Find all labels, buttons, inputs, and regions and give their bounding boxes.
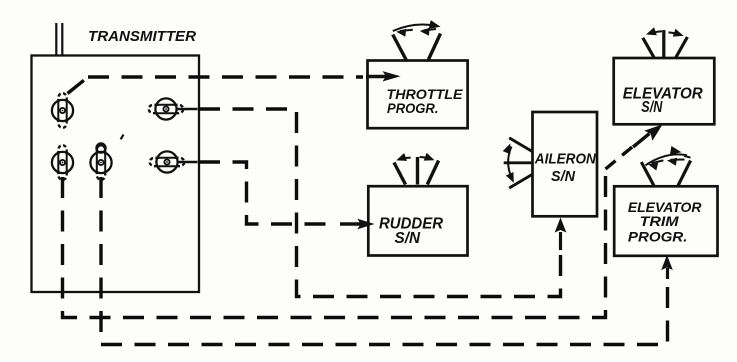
- svg-text:PROGR.: PROGR.: [387, 101, 439, 116]
- svg-text:AILERON: AILERON: [534, 151, 597, 168]
- svg-text:PROGR.: PROGR.: [628, 229, 688, 245]
- svg-text:THROTTLE: THROTTLE: [387, 87, 464, 102]
- svg-text:TRANSMITTER: TRANSMITTER: [88, 28, 196, 45]
- svg-text:S/N: S/N: [641, 99, 663, 116]
- svg-text:TRIM: TRIM: [640, 213, 679, 229]
- svg-text:ELEVATOR: ELEVATOR: [623, 86, 704, 103]
- svg-text:S/N: S/N: [551, 168, 576, 185]
- svg-text:S/N: S/N: [395, 230, 421, 247]
